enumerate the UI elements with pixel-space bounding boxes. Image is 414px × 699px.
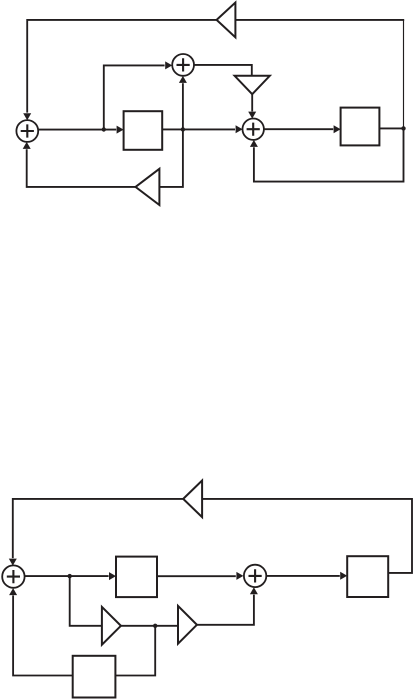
wire node X up to top line (thin segment)	[403, 20, 405, 128]
block H5 (bottom diagram bottom box)	[73, 656, 116, 698]
gain G5 (right-pointing triangle, first)	[102, 607, 121, 645]
gain G2 (down-pointing triangle)	[235, 76, 270, 94]
node dot X (output node, top diagram)	[401, 126, 405, 130]
sum S5 (right summing junction, bottom diagram)	[244, 565, 266, 587]
arrowhead into sum S3 top	[248, 112, 256, 119]
arrowhead into sum S1 top	[23, 113, 31, 120]
block H3 (bottom diagram middle box)	[116, 557, 157, 598]
arrowhead into block H1	[117, 126, 124, 134]
wire G2 output down to sum S3 top	[251, 94, 253, 111]
arrowhead into block H3	[109, 572, 116, 580]
sum S1 (left summing junction, top diagram)	[16, 120, 38, 142]
sum S2 (upper summing junction)	[172, 54, 194, 76]
gain G4 (left-pointing triangle, bottom diagram top line)	[183, 481, 202, 518]
gain G1 (left-pointing triangle on top feedback)	[217, 3, 236, 38]
plus sign of S2	[177, 58, 190, 71]
wire G5 output to gain G6	[121, 625, 178, 627]
sum S4 (left summing junction, bottom diagram)	[2, 565, 24, 587]
wire G3 output left and up to sum S1 bottom	[27, 149, 136, 187]
gain G3 (left-pointing triangle, lower feedback)	[136, 169, 160, 205]
arrowhead into block H4	[340, 572, 347, 580]
wire H5 output left and up to sum S4 bottom	[13, 595, 73, 675]
wire node D down and left into block H5 right side	[115, 626, 155, 676]
arrowhead into block H2	[334, 125, 341, 133]
wire node B down and left to gain G3	[160, 129, 183, 187]
plus sign of S5	[249, 569, 262, 582]
wire G4 output left and down to sum S4 top	[13, 499, 183, 558]
node dot D (tap between G5 and G6)	[153, 624, 157, 628]
wire S2 output right and down to gain G2	[194, 65, 252, 76]
wire H3 output to sum S5	[157, 575, 236, 577]
wire top feedback left segment into sum S1	[27, 20, 216, 113]
arrowhead into sum S4 top	[9, 559, 17, 566]
wire S4 output to block H3	[25, 575, 109, 577]
node dot A (tap after S1)	[102, 127, 106, 131]
arrowhead into sum S3 left	[236, 125, 243, 133]
plus sign of S3	[247, 123, 260, 136]
wire node X down and left to sum S3 bottom	[254, 128, 404, 181]
arrowhead into sum S2 bottom	[179, 76, 187, 83]
wire S3 output to block H2	[264, 128, 333, 130]
gain G6 (right-pointing triangle, second)	[178, 606, 197, 644]
wire S1 output to block H1	[38, 129, 116, 131]
arrowhead into sum S5 left	[236, 572, 243, 580]
wire node A up and right to sum S2	[104, 65, 165, 129]
wire G6 output right and up to sum S5 bottom	[197, 595, 254, 625]
wire S5 output to block H4	[266, 575, 340, 577]
wire node B up to sum S2 bottom	[182, 83, 184, 129]
arrowhead into sum S1 bottom	[23, 142, 31, 149]
block H1 (top diagram left box)	[124, 111, 163, 150]
arrowhead into sum S5 bottom	[250, 587, 258, 594]
arrowhead into sum S4 bottom	[9, 588, 17, 595]
arrowhead into sum S3 bottom	[250, 140, 258, 147]
sum S3 (right summing junction, top diagram)	[243, 119, 264, 140]
block H4 (bottom diagram right box)	[347, 556, 388, 597]
node dot B (tap at H1 output)	[181, 127, 185, 131]
arrowhead into sum S2 left	[165, 61, 172, 69]
wire node C down and right to gain G5	[70, 576, 102, 626]
block H2 (top diagram right box)	[341, 108, 380, 146]
wire H1 output to sum S3	[162, 128, 235, 130]
plus sign of S1	[21, 124, 34, 137]
plus sign of S4	[7, 570, 20, 583]
wire H2 output to node X	[379, 127, 403, 129]
node dot C (tap after S4)	[68, 574, 72, 578]
wire H4 output right and up along outer feedback to gain G4	[203, 499, 412, 573]
wire top feedback line right segment	[236, 19, 404, 21]
